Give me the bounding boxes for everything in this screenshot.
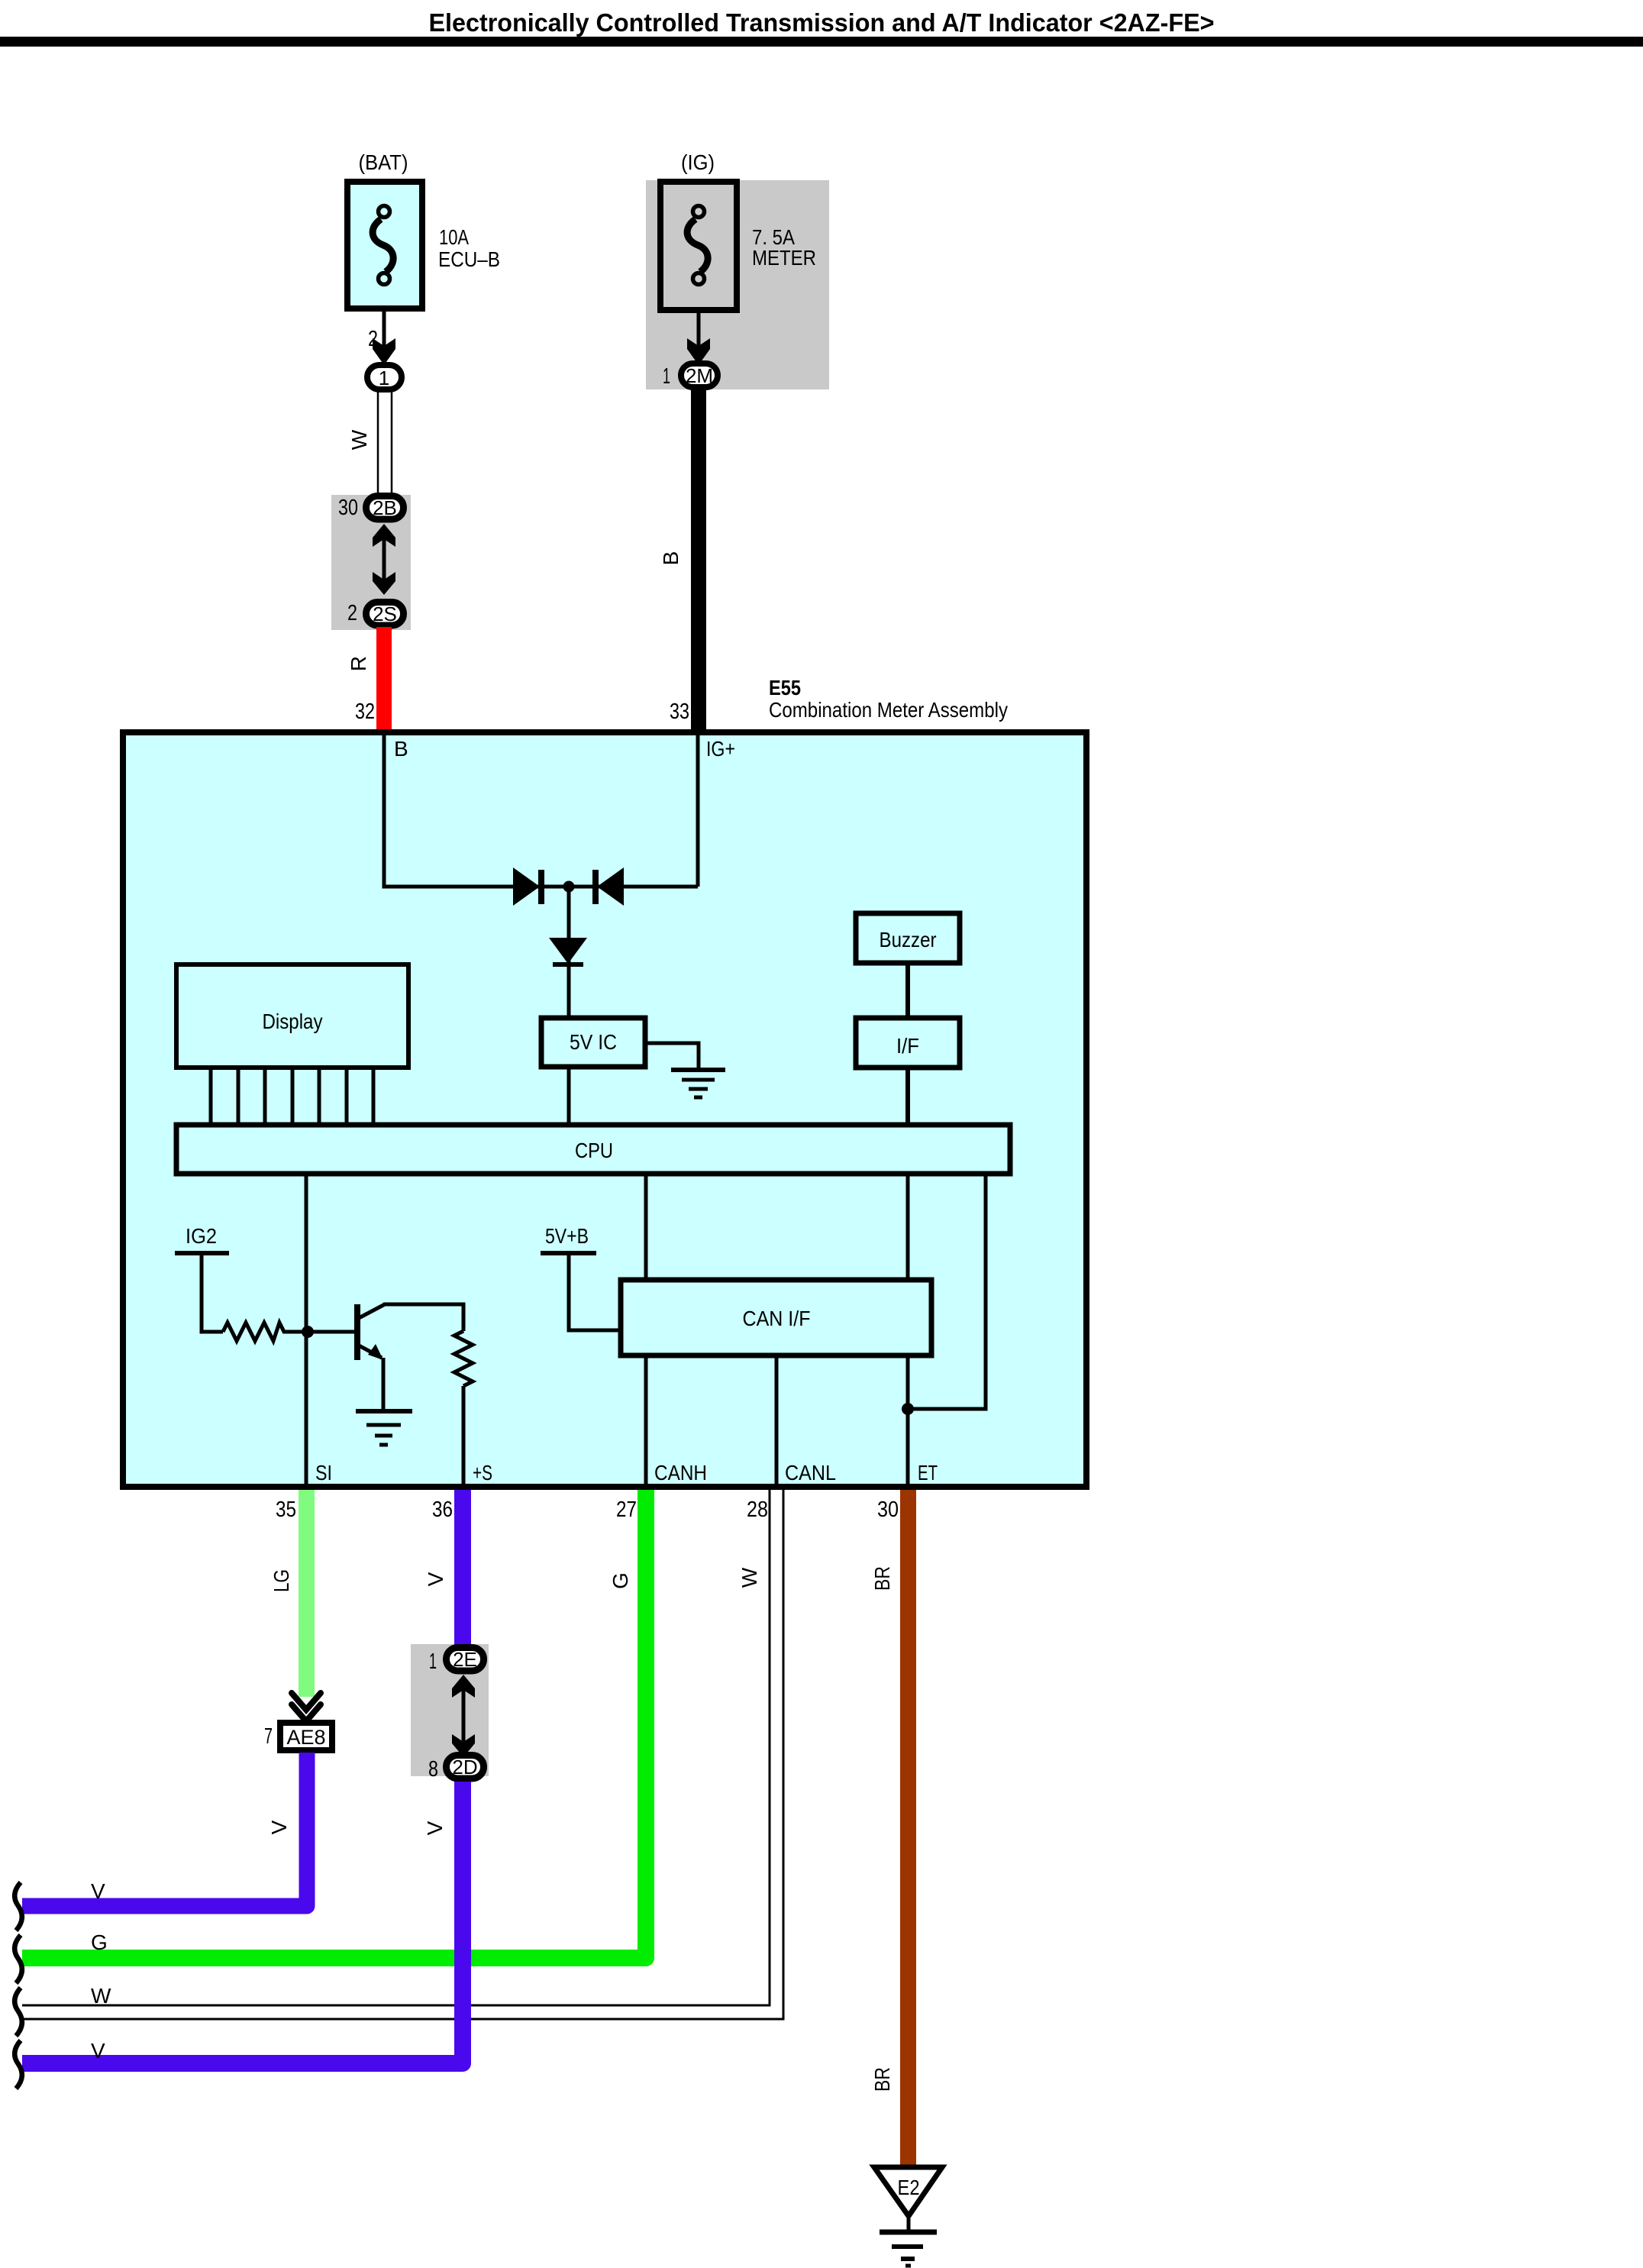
svg-text:33: 33 xyxy=(670,699,689,724)
svg-text:V: V xyxy=(267,1820,291,1834)
wire G from pin 27 to bus xyxy=(22,1490,646,1958)
svg-text:5V+B: 5V+B xyxy=(545,1224,589,1248)
wire fuse IG to connector 2M xyxy=(697,309,701,349)
wire CPU right branch xyxy=(908,1174,986,1409)
CPU box xyxy=(176,1125,1010,1174)
svg-text:LG: LG xyxy=(270,1569,293,1592)
svg-text:7: 7 xyxy=(264,1724,273,1749)
wire R (red) xyxy=(376,627,392,729)
svg-text:IG2: IG2 xyxy=(186,1224,217,1248)
arrow into connector 2M xyxy=(687,338,710,365)
Display box xyxy=(176,964,408,1068)
Buzzer box xyxy=(856,913,960,963)
svg-text:IG+: IG+ xyxy=(706,737,735,761)
svg-text:Electronically Controlled Tran: Electronically Controlled Transmission a… xyxy=(429,8,1215,37)
svg-text:28: 28 xyxy=(747,1497,768,1522)
junction node xyxy=(563,881,575,893)
svg-text:E55: E55 xyxy=(769,676,801,699)
wire V vertical crossing over (redraw over G and W buses) xyxy=(454,1950,471,2022)
svg-text:35: 35 xyxy=(276,1497,296,1522)
gray box around 2E/2D connectors xyxy=(411,1644,489,1776)
svg-text:1: 1 xyxy=(429,1649,437,1674)
transistor collector wire xyxy=(383,1304,463,1331)
junction double arrow 2B-2S xyxy=(383,535,386,584)
junction node ET xyxy=(902,1403,914,1415)
break symbol bus G xyxy=(15,1935,22,1983)
wire W from pin 28 to bus (double line) xyxy=(22,1490,770,2005)
connector 2B xyxy=(366,496,404,520)
wire 5V IC to CPU xyxy=(567,1067,571,1123)
fuse ECU-B box xyxy=(347,182,422,309)
diode D1 (B side) xyxy=(513,867,540,906)
resistor R1 xyxy=(223,1323,303,1341)
chevron arrows into AE8 xyxy=(292,1693,321,1721)
wire I/F to CPU xyxy=(905,1068,910,1123)
break symbol bus1 xyxy=(15,1882,22,1930)
svg-text:BR: BR xyxy=(870,1566,894,1591)
connector 2M xyxy=(681,363,718,387)
svg-text:V: V xyxy=(91,2039,105,2063)
wire CAN I/F to CANL pin xyxy=(775,1355,779,1487)
ground E2 symbol xyxy=(907,2216,911,2231)
svg-text:+S: +S xyxy=(473,1461,492,1485)
svg-text:ET: ET xyxy=(918,1461,938,1485)
svg-text:I/F: I/F xyxy=(896,1034,919,1058)
svg-text:1: 1 xyxy=(379,367,389,389)
display pin wires xyxy=(211,1068,373,1123)
wire B (black) xyxy=(691,389,706,732)
ground E2 triangle xyxy=(874,2167,942,2216)
svg-text:2: 2 xyxy=(368,327,378,351)
svg-text:Display: Display xyxy=(263,1010,323,1033)
svg-text:AE8: AE8 xyxy=(286,1726,325,1749)
diode D2 (IG side) xyxy=(597,867,624,906)
meter assembly box E55 xyxy=(123,732,1086,1487)
svg-text:CANH: CANH xyxy=(654,1461,707,1485)
svg-text:2M: 2M xyxy=(686,364,713,387)
ground (transistor) xyxy=(356,1411,412,1445)
CAN I/F box xyxy=(621,1280,931,1355)
svg-text:(BAT): (BAT) xyxy=(359,150,408,174)
connector 2E xyxy=(447,1648,484,1672)
break symbol bus W xyxy=(15,1988,22,2036)
wire resistor to +S pin xyxy=(462,1386,466,1487)
arrow into connector 1 xyxy=(373,338,395,365)
wire CPU to CANH pin xyxy=(644,1174,648,1487)
gray background box around IG fuse xyxy=(646,180,829,389)
svg-text:32: 32 xyxy=(355,699,375,724)
5V IC box xyxy=(541,1018,645,1067)
svg-text:10A: 10A xyxy=(439,225,469,249)
fuse ECU-B symbol xyxy=(373,206,393,285)
svg-text:METER: METER xyxy=(752,246,816,270)
junction double arrow 2E-2D xyxy=(462,1688,466,1745)
svg-text:R: R xyxy=(347,656,370,671)
gray box around 2B/2S connectors xyxy=(331,495,411,630)
transistor emitter wire xyxy=(382,1358,386,1410)
svg-text:W: W xyxy=(738,1567,761,1588)
svg-text:BR: BR xyxy=(870,2067,894,2092)
wire node to transistor base xyxy=(308,1330,354,1334)
svg-text:36: 36 xyxy=(432,1497,453,1522)
svg-text:SI: SI xyxy=(315,1461,332,1485)
wire W (white, double line) xyxy=(377,391,379,496)
svg-text:V: V xyxy=(423,1821,447,1835)
svg-text:2E: 2E xyxy=(453,1648,477,1671)
connector 2S xyxy=(366,603,404,626)
svg-text:2B: 2B xyxy=(373,496,397,519)
wire junction to diode D3 xyxy=(567,887,571,1019)
fuse METER symbol xyxy=(687,206,708,285)
wire BR from pin 30 xyxy=(900,1490,916,2165)
diode D3 (down) xyxy=(549,938,587,964)
svg-text:B: B xyxy=(394,737,408,761)
svg-text:CANL: CANL xyxy=(785,1461,836,1485)
svg-text:2D: 2D xyxy=(452,1756,477,1779)
wire IG+ pin down xyxy=(696,735,700,887)
wire V from AE8 to bus xyxy=(22,1753,307,1906)
svg-text:W: W xyxy=(347,429,371,450)
svg-text:5V IC: 5V IC xyxy=(570,1030,617,1054)
svg-text:W: W xyxy=(91,1984,111,2008)
connector 2D xyxy=(447,1756,484,1779)
svg-text:30: 30 xyxy=(338,496,358,520)
connector 1 xyxy=(367,365,402,389)
svg-text:V: V xyxy=(424,1572,447,1586)
svg-text:CPU: CPU xyxy=(575,1139,613,1162)
connector AE8 xyxy=(280,1723,332,1750)
title bar xyxy=(0,37,1643,47)
svg-text:ECU–B: ECU–B xyxy=(438,247,500,271)
svg-text:Buzzer: Buzzer xyxy=(880,928,937,951)
svg-text:Combination Meter Assembly: Combination Meter Assembly xyxy=(769,698,1008,722)
wire Buzzer to I/F xyxy=(905,963,910,1018)
svg-text:30: 30 xyxy=(877,1497,899,1522)
resistor R2 xyxy=(454,1331,473,1386)
break symbol bus2 (V) xyxy=(15,2040,22,2089)
transistor Q1 xyxy=(354,1304,360,1360)
wire CPU to SI pin xyxy=(305,1174,308,1487)
svg-text:V: V xyxy=(91,1879,105,1903)
wire fuse BAT to connector 1 xyxy=(383,309,386,349)
wire CPU to ET pin xyxy=(906,1174,910,1487)
svg-text:27: 27 xyxy=(616,1497,637,1522)
fuse METER box xyxy=(660,182,737,310)
wire 5V IC to ground xyxy=(647,1043,699,1068)
I/F box xyxy=(856,1018,960,1068)
wire V from 2D to bus2 xyxy=(22,1782,463,2063)
ground (5V IC) xyxy=(671,1070,725,1097)
svg-text:G: G xyxy=(91,1930,108,1954)
svg-text:E2: E2 xyxy=(898,2176,920,2199)
svg-text:1: 1 xyxy=(663,364,670,389)
wire LG from pin 35 xyxy=(299,1490,315,1697)
wire B pin down and across xyxy=(384,735,698,887)
svg-text:2: 2 xyxy=(347,601,357,625)
wire V from pin 36 to 2E xyxy=(454,1490,471,1645)
junction node SI xyxy=(302,1326,314,1338)
svg-text:(IG): (IG) xyxy=(681,150,715,174)
svg-text:8: 8 xyxy=(428,1757,438,1782)
svg-text:B: B xyxy=(659,551,683,566)
svg-text:CAN I/F: CAN I/F xyxy=(743,1307,811,1330)
svg-text:2S: 2S xyxy=(373,603,397,625)
svg-text:G: G xyxy=(608,1572,632,1589)
